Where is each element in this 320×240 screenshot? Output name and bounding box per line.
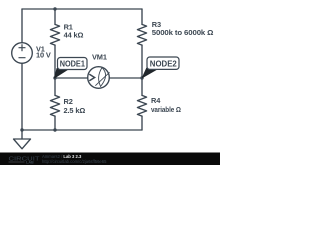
svg-text:R2: R2 xyxy=(64,97,73,106)
svg-text:http://circuitlab.com/c/2ja6sf: http://circuitlab.com/c/2ja6sff56e65 xyxy=(42,159,107,164)
svg-text:VM1: VM1 xyxy=(92,53,107,62)
svg-text:10 V: 10 V xyxy=(36,51,51,60)
svg-text:NODE2: NODE2 xyxy=(150,58,177,68)
svg-text:NODE1: NODE1 xyxy=(60,59,85,69)
svg-text:2.5 kΩ: 2.5 kΩ xyxy=(64,106,86,115)
svg-text:44 kΩ: 44 kΩ xyxy=(64,31,84,40)
svg-text:R4: R4 xyxy=(151,96,161,105)
svg-text:LAB: LAB xyxy=(26,161,34,165)
svg-text:variable Ω: variable Ω xyxy=(151,105,181,114)
svg-text:5000k to 6000k Ω: 5000k to 6000k Ω xyxy=(152,28,214,37)
